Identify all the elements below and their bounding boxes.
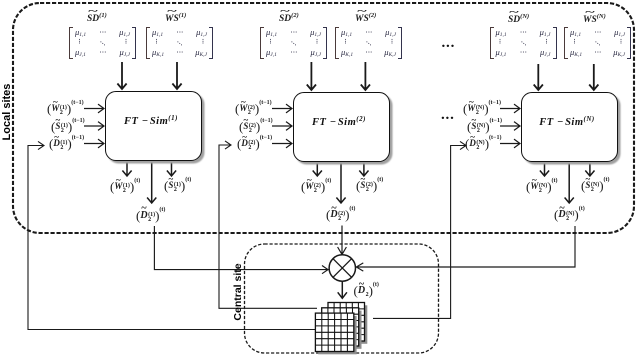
- op block FT-Sim(N): [521, 92, 618, 162]
- wire input W(1) arrow: [84, 104, 104, 113]
- label Central site: [232, 242, 244, 342]
- label aggregated D tensor: [354, 282, 379, 298]
- dots between site 2 and site N (top): [442, 35, 456, 52]
- matrix WS(1): [146, 27, 213, 59]
- wire feedback to site 1: [28, 141, 315, 329]
- wire output W(N): [540, 160, 549, 176]
- tensor stack back sheet: [328, 303, 367, 344]
- wire matrix WS(2) to FT-Sim(2): [361, 62, 370, 90]
- label output W(1): [110, 178, 140, 194]
- wire input S(2) arrow: [272, 122, 292, 131]
- label input D(1): [49, 135, 84, 151]
- wire D(N) to multiplier: [356, 226, 575, 271]
- wire matrix SD(N) to FT-Sim(N): [534, 64, 543, 90]
- matrix WS(2): [335, 27, 402, 59]
- label output W(2): [301, 178, 331, 194]
- label output D(N): [554, 206, 585, 222]
- wire output D(N): [565, 160, 574, 203]
- label input D(2): [237, 135, 272, 151]
- wire D(2) to multiplier: [338, 226, 347, 255]
- wire output S(2): [359, 160, 368, 176]
- label output S(N): [581, 177, 610, 193]
- label SD(N): [508, 13, 529, 25]
- label output D(1): [136, 207, 165, 223]
- label Local sites: [1, 62, 13, 162]
- wire D(1) to multiplier: [154, 226, 328, 274]
- label output D(2): [326, 206, 355, 222]
- matrix SD(2): [260, 27, 327, 59]
- wire multiplier to tensor stack: [338, 282, 347, 299]
- wire feedback to site N: [373, 141, 466, 318]
- central site dashed frame: [245, 244, 439, 353]
- label output W(N): [526, 178, 558, 194]
- wire output D(1): [147, 160, 156, 203]
- label WS(N): [583, 13, 606, 25]
- multiplier node: [329, 255, 355, 281]
- matrix WS(N): [564, 27, 631, 59]
- wire input D(2) arrow: [272, 139, 292, 148]
- label input S(1): [51, 118, 85, 134]
- matrix SD(1): [69, 27, 136, 59]
- wire input S(N) arrow: [500, 122, 520, 131]
- label input W(1): [47, 100, 84, 116]
- label WS(1): [165, 12, 186, 24]
- dots between site 2 and site N (inputs): [441, 107, 455, 124]
- wire input W(N) arrow: [500, 104, 520, 113]
- local sites dashed frame: [13, 3, 634, 233]
- wire output W(2): [313, 160, 322, 176]
- label input S(N): [467, 118, 502, 134]
- label SD(2): [279, 12, 299, 24]
- label input W(2): [235, 100, 272, 116]
- label input S(2): [239, 118, 273, 134]
- wire matrix SD(1) to FT-Sim(1): [117, 62, 126, 89]
- wire input D(N) arrow: [500, 139, 520, 148]
- wire output W(1): [122, 160, 131, 176]
- wire output S(1): [167, 160, 176, 176]
- wire matrix WS(N) to FT-Sim(N): [589, 64, 598, 90]
- matrix SD(N): [490, 27, 557, 59]
- tensor stack middle sheet: [322, 308, 362, 349]
- op block FT-Sim(1): [105, 91, 202, 161]
- wire matrix WS(1) to FT-Sim(1): [172, 62, 181, 89]
- label output S(1): [164, 177, 191, 193]
- wire input S(1) arrow: [84, 122, 104, 131]
- wire output S(N): [585, 160, 594, 176]
- label output S(2): [356, 177, 383, 193]
- label input W(N): [463, 100, 501, 116]
- wire input D(1) arrow: [84, 139, 104, 148]
- label SD(1): [87, 12, 107, 24]
- wire feedback to site 2: [219, 141, 317, 308]
- op block FT-Sim(2): [293, 92, 390, 162]
- wire input W(2) arrow: [272, 104, 292, 113]
- tensor stack front sheet: [315, 313, 356, 354]
- wire output D(2): [336, 160, 345, 203]
- label input D(N): [465, 135, 501, 151]
- label WS(2): [355, 12, 376, 24]
- wire matrix SD(2) to FT-Sim(2): [307, 62, 316, 90]
